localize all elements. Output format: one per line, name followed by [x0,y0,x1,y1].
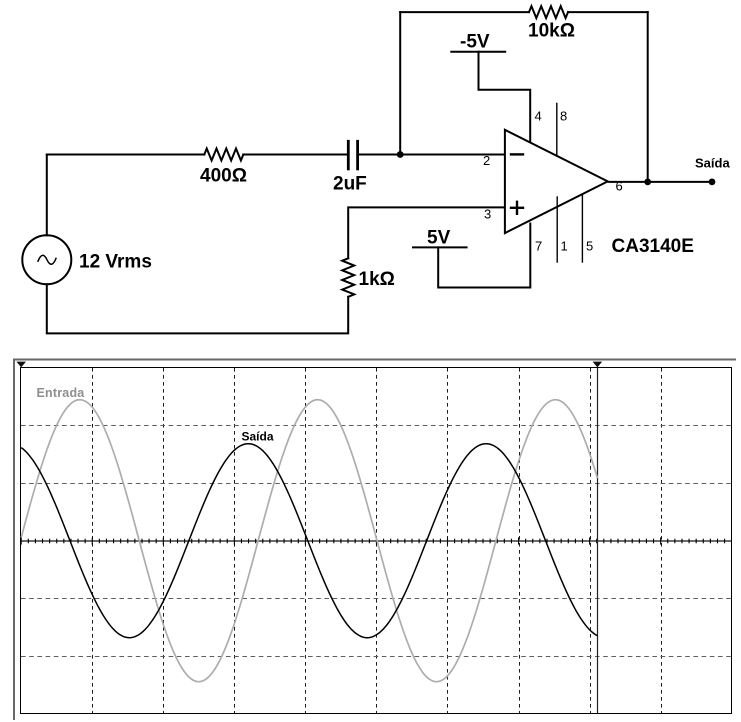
pin 5 stub [581,194,583,262]
supply 5V bar [413,246,467,248]
scope window gray border left line [13,359,15,721]
AC source V1 12 Vrms [22,235,71,284]
AC source sine symbol [38,255,56,264]
op-amp plus sign horizontal [511,207,523,209]
svg-text:4: 4 [535,109,542,124]
op-amp minus sign [511,153,523,155]
wire source bottom [47,284,348,333]
svg-text:1: 1 [561,239,568,254]
scope plot frame [21,368,732,714]
scope time axis center line [21,540,732,542]
svg-text:2uF: 2uF [333,174,367,195]
wire 5V to pin 7 [438,224,530,288]
svg-text:10kΩ: 10kΩ [528,21,575,42]
junction node at output and feedback [644,179,651,186]
wire feedback vertical right to output [647,12,649,182]
output terminal node Saida [709,179,716,186]
junction node at feedback and pin2 wire [397,151,404,158]
capacitor C1 2uF left plate [347,141,350,169]
cursor marker triangle left [16,362,26,368]
pin 8 stub [556,103,558,155]
wire main horizontal left segment [47,154,205,156]
resistor R3 1k ohm [342,258,354,296]
svg-text:-5V: -5V [460,32,490,53]
supply -5V bar [451,51,505,53]
pin 1 stub [556,197,558,262]
svg-text:1kΩ: 1kΩ [359,269,395,290]
svg-text:8: 8 [560,109,567,124]
svg-text:5V: 5V [427,228,451,249]
wire 1k to pin 3 [348,207,505,258]
wire resistor to capacitor [243,154,347,156]
op-amp plus sign vertical [516,202,518,214]
svg-text:7: 7 [535,239,542,254]
wire source top to main node [46,155,48,236]
resistor R2 10k ohm [529,6,568,18]
svg-text:3: 3 [484,207,491,222]
resistor R1 400 ohm [204,149,243,161]
svg-text:400Ω: 400Ω [200,166,247,187]
scope window gray border top bar [13,359,736,361]
svg-text:2: 2 [483,153,490,168]
cursor marker triangle right [593,362,603,368]
wire -5V to pin 4 [479,52,531,143]
wire feedback top right segment [568,11,648,13]
waveform Saida black sine [21,444,597,638]
wire output pin 6 [609,181,712,183]
cursor line at right [597,368,599,713]
svg-text:Saída: Saída [695,156,730,171]
wire capacitor to op-amp pin 2 [359,154,505,156]
capacitor C1 2uF right plate [356,141,359,169]
svg-text:CA3140E: CA3140E [612,236,694,257]
svg-text:12 Vrms: 12 Vrms [79,252,152,273]
wire feedback vertical left [399,12,401,154]
waveform Entrada gray sine [21,400,597,682]
svg-text:Entrada: Entrada [37,386,86,400]
svg-text:5: 5 [586,239,593,254]
axis tick marks [21,537,724,544]
wire feedback top left segment [400,11,529,13]
svg-text:Saída: Saída [242,430,274,444]
svg-text:6: 6 [616,179,623,194]
op-amp U1 CA3140E triangle [505,130,608,233]
grid vertical dashed lines [93,368,662,713]
grid horizontal dashed lines [21,426,732,657]
